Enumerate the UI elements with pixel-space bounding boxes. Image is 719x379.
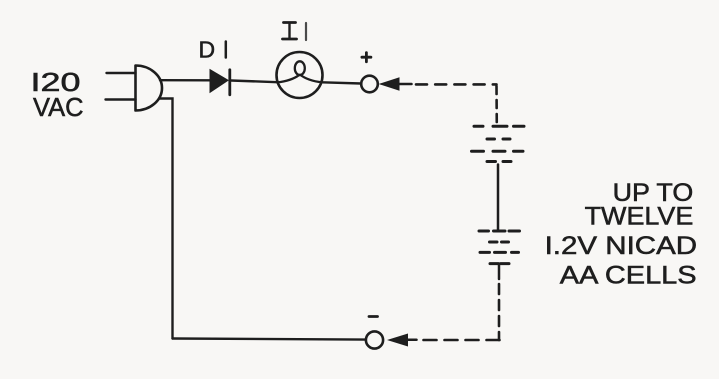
- label D1: [199, 36, 216, 62]
- label 120 VAC: [31, 67, 84, 122]
- label I1: [283, 23, 307, 41]
- svg-text:D: D: [199, 36, 216, 62]
- wire between batteries: [497, 165, 500, 231]
- wire plug to diode: [160, 79, 210, 82]
- battery B2 (dashed, phantom): [479, 231, 520, 264]
- dashed wire to corner (top): [416, 83, 497, 86]
- plus sign: [362, 53, 371, 62]
- AC plug P1: [136, 66, 163, 111]
- dashed wire bottom to arrow: [423, 339, 500, 342]
- wire lamp to plus terminal: [322, 82, 361, 83]
- dashed wire down to bottom corner: [498, 284, 501, 340]
- wire diode to lamp: [231, 81, 277, 83]
- diode D1: [210, 69, 230, 95]
- svg-text:I.2V NICAD: I.2V NICAD: [545, 232, 698, 260]
- wire bottom rail: [173, 339, 366, 340]
- lamp I1: [277, 52, 323, 98]
- svg-text:VAC: VAC: [33, 92, 84, 122]
- wire below battery B2: [498, 265, 501, 280]
- svg-text:TWELVE: TWELVE: [585, 202, 694, 230]
- battery B1 (dashed, phantom): [472, 126, 525, 161]
- plug prong top: [107, 72, 136, 74]
- dashed wire corner down to battery: [495, 86, 498, 126]
- arrow into - terminal: [408, 339, 417, 342]
- terminal +: [361, 76, 378, 93]
- lamp filament: [277, 75, 299, 83]
- plug prong bottom: [106, 98, 136, 100]
- arrow into + terminal: [379, 77, 400, 91]
- svg-text:AA CELLS: AA CELLS: [560, 262, 697, 290]
- minus sign: [369, 315, 378, 318]
- terminal -: [366, 331, 383, 348]
- wire plug to bottom rail: [159, 99, 173, 339]
- label UP TO TWELVE 1.2V NICAD AA CELLS: [545, 179, 698, 290]
